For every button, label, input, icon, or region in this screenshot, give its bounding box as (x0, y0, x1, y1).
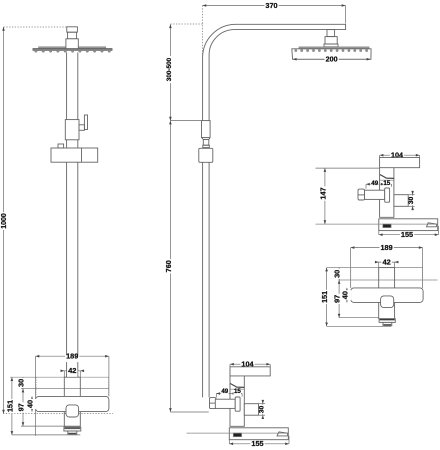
svg-text:104: 104 (391, 151, 404, 160)
dimension 104 (side view) (230, 363, 270, 365)
svg-text:147: 147 (319, 187, 328, 199)
shower head connector block lower (front view) (66, 39, 78, 49)
detail2 dimension 30 (338, 268, 340, 280)
riser pipe and arm (side view) (203, 24, 346, 120)
svg-text:15: 15 (383, 180, 390, 187)
riser pipe upper segment (front view) (66, 52, 68, 119)
extension line top of column (4, 26, 67, 28)
detail2 wall plate hidden outline (327, 267, 423, 269)
detail handle wedge (380, 175, 394, 179)
diverter lever grip (84, 115, 87, 130)
shower head nozzles (front view) (35, 50, 111, 52)
detail dimension 49 and 15 (366, 183, 392, 185)
dimension 760 (side view) (169, 121, 171, 412)
svg-text:42: 42 (382, 258, 390, 267)
dimension 151 (front view) (11, 377, 13, 435)
detail2 42 extension lines (378, 262, 380, 268)
riser pipe lower (side view) (202, 162, 204, 397)
mixer handle lever (side view) (230, 367, 270, 376)
svg-text:189: 189 (381, 243, 393, 252)
mixer body column (front view) (64, 377, 80, 427)
svg-text:40: 40 (341, 291, 350, 299)
spout tip aerator (side view) (277, 432, 288, 436)
extension line bottom of column (3, 413, 113, 415)
dimension 155 extension lines (228, 440, 230, 444)
shower head body (side view) (292, 49, 371, 60)
mixer body (side view) (230, 376, 244, 426)
svg-text:1000: 1000 (1, 213, 8, 229)
svg-text:370: 370 (265, 1, 277, 10)
dimension 30 (front view) (22, 377, 24, 388)
detail dimension 147 (324, 168, 326, 224)
detail2 mixer bar body (351, 288, 424, 303)
dimension 155 (side view) (229, 443, 289, 445)
detail2 dimension 42 (375, 261, 398, 263)
mixer handle wedge (side view) (230, 384, 244, 388)
detail shower outlet port (394, 195, 408, 207)
svg-text:155: 155 (401, 230, 413, 239)
detail dimension 30 (412, 191, 414, 210)
detail mount flange (385, 188, 390, 202)
svg-text:189: 189 (66, 352, 78, 361)
detail2 189 extension lines (350, 248, 352, 288)
svg-text:151: 151 (6, 400, 15, 412)
detail 104 extension lines (379, 155, 381, 157)
detail2 dimension 40 (346, 288, 348, 303)
slider bracket body (51, 148, 98, 162)
slider block (side view) (199, 148, 213, 162)
svg-text:30: 30 (408, 197, 415, 205)
dimension 300-500 (side view) (169, 24, 171, 120)
detail dimension 104 (380, 154, 420, 156)
diverter valve body (front view) (65, 120, 79, 140)
svg-text:30: 30 (258, 405, 265, 413)
svg-text:49: 49 (221, 388, 228, 395)
detail wall nut (358, 189, 365, 200)
mixer spout cap (front view) (64, 427, 81, 431)
detail 155 extension lines (378, 231, 380, 235)
diverter lever arm (79, 125, 84, 131)
detail2 dimension 151 (326, 268, 328, 327)
pipe neck (side view) (203, 139, 209, 145)
dimension 42 extension lines (63, 371, 65, 377)
svg-text:300-500: 300-500 (166, 57, 173, 81)
svg-text:40: 40 (26, 400, 35, 408)
svg-text:30: 30 (17, 379, 26, 387)
svg-text:155: 155 (251, 439, 263, 448)
shower head nozzles (side view) (295, 50, 368, 52)
head connector stem (side view) (327, 30, 335, 37)
dimension 189 (front view) (36, 355, 109, 357)
pipe sleeve (side view) (202, 121, 211, 138)
pipe sleeve taper (202, 138, 211, 140)
head connector flare (side view) (324, 44, 338, 47)
detail 30 extension lines (408, 194, 414, 196)
eccentric shaft (side view) (215, 399, 235, 408)
dimension 49 and 15 (side view) (216, 393, 242, 395)
spout (side view) (229, 428, 288, 440)
detail handle lever (380, 158, 420, 168)
shower head plate edge (front view) (33, 49, 112, 51)
dimension 370 extension lines (202, 6, 204, 57)
extension line y120.6 (170, 120, 201, 122)
dimension 370 (side view) (203, 5, 346, 7)
mount flange (side view) (235, 397, 240, 411)
detail mixer body (380, 168, 394, 218)
svg-text:49: 49 (371, 180, 378, 187)
slider bracket divider line (81, 148, 83, 162)
extension line y426 (21, 425, 80, 427)
detail2 dimension 189 (351, 247, 423, 249)
detail2 extension line y326.3 (327, 325, 391, 327)
detail2 dimension 97 (338, 280, 340, 318)
svg-text:200: 200 (326, 55, 338, 64)
detail2 mixer body column (379, 268, 395, 319)
svg-text:30: 30 (333, 270, 342, 278)
detail spout diverter knob (383, 224, 391, 228)
dimension 49/15 extension lines (215, 394, 217, 398)
svg-text:15: 15 (234, 388, 241, 395)
detail2 mixer diverter knob (381, 296, 394, 308)
svg-text:151: 151 (320, 291, 329, 303)
extension line y24 (170, 23, 202, 25)
extension line y435 (12, 434, 80, 436)
extension line y412 (760 bottom) (170, 411, 208, 413)
detail dimension 155 (379, 234, 439, 236)
dimension 40 (front view) (31, 396, 33, 411)
dimension 42 (front view) (61, 370, 84, 372)
detail reference line y224 (316, 223, 438, 225)
dimension 104 extension lines (229, 364, 231, 367)
shower head top strip (front view) (39, 47, 106, 49)
dimension 97 (front view) (22, 389, 24, 427)
detail eccentric shaft (365, 190, 385, 199)
svg-text:97: 97 (17, 403, 26, 411)
dimension 30 extension lines (259, 403, 266, 405)
mixer wall plate hidden outline (front view) (10, 376, 109, 378)
dimension 189 extension lines (35, 356, 37, 436)
riser pipe lower segment (front view) (66, 162, 68, 377)
shower head connector block middle (front view) (68, 32, 77, 39)
dimension 1000 vertical line (3, 27, 5, 414)
detail spout tip aerator (427, 223, 437, 227)
detail 147 extension line (316, 167, 380, 169)
spout reference line (side view) (187, 432, 289, 434)
riser pipe middle segment (front view) (66, 140, 68, 148)
pipe ring (side view) (203, 145, 210, 147)
shower outlet port (side view) (244, 404, 258, 416)
detail2 spout cap (379, 319, 395, 323)
shower head connector block upper (front view) (67, 27, 78, 32)
shower head top strip (side view) (299, 47, 369, 49)
spout diverter knob (side view) (233, 433, 241, 437)
detail spout (379, 219, 438, 231)
head connector base (side view) (325, 37, 337, 44)
dimension 1000 label (3, 212, 10, 230)
svg-text:42: 42 (68, 366, 76, 375)
slider bracket tab (58, 144, 64, 148)
dimension 200 (head width) (293, 58, 371, 60)
detail 49/15 extension lines (365, 184, 367, 189)
mixer aerator (front view) (68, 431, 77, 435)
detail2 extension line y317.7 (339, 317, 379, 319)
detail2 aerator (383, 322, 392, 325)
svg-text:760: 760 (164, 260, 173, 272)
mixer bar body (front view) (36, 396, 109, 411)
wall nut (side view) (210, 398, 217, 409)
mixer diverter knob (front view) (66, 405, 79, 417)
dimension 30 (side view) (262, 400, 264, 419)
